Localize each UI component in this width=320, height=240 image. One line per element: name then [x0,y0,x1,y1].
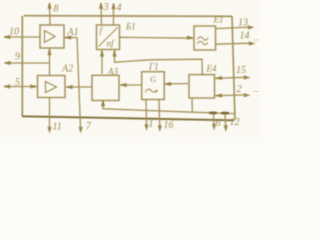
wire terminal 5 into A2 left [4,86,37,88]
paper background [0,0,259,137]
wire terminal 10 [4,36,40,38]
arrowhead into A1 right [65,35,72,39]
wire terminal 13 [216,27,250,29]
wire B1 to E1 [120,36,194,39]
block A3 [92,75,119,100]
wire A3 top to B1 bottom [101,50,103,74]
faint overshoot dash near 2 tip [253,90,259,93]
arrowhead 10 left [4,35,11,39]
arrowhead 5 right into A2 [30,84,37,88]
wire B1 bottom right, down, right, into E4 top [115,50,203,76]
wire trunk2 vertical (terminal 7) [77,38,81,129]
block E1 [194,26,216,50]
arrowhead into A2 right [66,85,73,89]
arrowhead 8 up [47,2,51,9]
wire E4 left to G1 right [165,83,189,86]
divider block B1 [97,25,120,50]
arrowhead 1 down [144,124,148,131]
paper noise overlay [0,0,259,137]
wire L1 bus [103,108,234,113]
wire terminal 9 [5,62,50,64]
amplifier box A2 [38,76,66,98]
outer frame left [21,16,23,116]
wire A3 left to A2 right [66,86,92,88]
arrowhead into A3 bottom (up) [101,100,105,107]
wire terminal 3 [100,3,103,25]
arrowhead 2 left into E4 [216,93,223,97]
triangle inside A1 [45,31,56,43]
arrowhead 3 up [99,2,103,9]
triangle inside A2 [46,82,57,93]
arrowhead 4 up [111,3,115,10]
junction tick 6 [209,112,217,115]
arrowhead 15 left into E4 [216,76,223,80]
wire A2 bottom terminal 11 [49,98,51,129]
arrowhead into B1 bottom left (up) [100,50,104,57]
arrowhead 15 right [244,75,251,79]
arrowhead 6 down [212,124,216,131]
wire trunk into A1 right [65,37,78,39]
wire E4 bottom to L1 [191,98,193,113]
arrowhead into A1 bottom (up) [47,49,51,56]
wire terminal 6 down [213,113,216,125]
wire terminal 14 [216,43,251,44]
arrowhead 2 right [244,93,251,97]
wire terminal 16 down from G1 [158,100,161,126]
approx symbol in E1 [198,37,209,40]
arrowhead 5 left [4,84,11,88]
junction tick 12 [221,112,229,115]
arrowhead 9 left [4,61,11,65]
wire terminal 4 [113,4,115,26]
diagonal inside B1 [99,28,118,47]
arrowhead into A3 right (left) [120,83,127,87]
wire G1 left to A3 right [120,84,142,86]
wire terminal 8 [49,3,52,25]
block E4 [189,75,215,98]
arrowhead 7 down [79,127,83,134]
arrowhead 16 down [158,125,162,132]
wire terminal 1 down from G1 [145,100,148,126]
wire terminal 2 [215,94,245,97]
outer frame top [24,15,232,18]
wire A3 bottom from L1 [102,101,104,109]
arrowhead 13 right [248,25,255,29]
outer frame bottom [22,116,234,120]
arrowhead 12 down [224,125,228,132]
wire into A2 top [49,63,51,76]
wire terminal 12 down [224,113,227,126]
faint overshoot dash near 14 tip [254,39,260,42]
wire into A1 bottom [49,49,51,64]
outer frame right trunk [232,16,235,120]
arrowhead into E1 right (B1->E1) [187,36,194,40]
wire terminal 15 [215,77,245,78]
generator block G1 [142,72,165,100]
amplifier box A1 [40,25,64,48]
arrowhead into G1 right (left) [165,82,172,86]
arrowhead 11 down [47,127,51,134]
arrowhead 14 right [249,41,256,45]
arrowhead into B1 bottom right (up) [112,50,116,57]
approx symbol in G1 [145,89,155,92]
